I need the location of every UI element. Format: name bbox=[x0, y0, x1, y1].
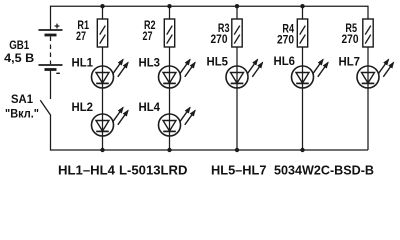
junction dot bottom 4 bbox=[300, 148, 304, 152]
svg-text:L-5013LRD: L-5013LRD bbox=[119, 162, 188, 177]
battery GB1 bbox=[39, 30, 63, 70]
wire battery bottom lead bbox=[50, 71, 52, 100]
switch SA1 blade bbox=[40, 100, 50, 115]
svg-text:27: 27 bbox=[76, 29, 86, 43]
wire battery top lead bbox=[50, 6, 52, 30]
svg-text:HL1–HL4: HL1–HL4 bbox=[58, 162, 116, 177]
resistor R4 bbox=[297, 19, 307, 47]
svg-text:SA1: SA1 bbox=[11, 92, 33, 106]
junction dot bottom 3 bbox=[235, 148, 239, 152]
resistor R3 bbox=[232, 19, 242, 47]
wire switch bottom lead bbox=[50, 115, 52, 151]
svg-text:HL5: HL5 bbox=[207, 55, 229, 69]
resistor R1 bbox=[97, 19, 107, 47]
svg-text:HL4: HL4 bbox=[139, 100, 161, 114]
junction dot top 2 bbox=[167, 4, 171, 8]
svg-text:HL2: HL2 bbox=[72, 100, 94, 114]
svg-text:270: 270 bbox=[342, 32, 359, 46]
resistor R2 bbox=[164, 19, 174, 47]
svg-text:5034W2C-BSD-B: 5034W2C-BSD-B bbox=[274, 162, 374, 177]
wire branch 4 bbox=[302, 6, 304, 150]
LED HL3 bbox=[159, 59, 196, 88]
wire branch 3 bbox=[236, 6, 238, 150]
junction dot top 1 bbox=[100, 4, 104, 8]
wire branch 2 bbox=[169, 6, 171, 150]
svg-text:4,5 В: 4,5 В bbox=[4, 51, 34, 65]
resistor R5 bbox=[363, 19, 373, 47]
svg-text:270: 270 bbox=[211, 32, 228, 46]
LED HL1 bbox=[92, 59, 129, 88]
svg-text:HL3: HL3 bbox=[139, 56, 161, 70]
junction dot top 3 bbox=[235, 4, 239, 8]
LED HL4 bbox=[159, 107, 196, 136]
plus sign bbox=[55, 24, 60, 29]
LED HL7 bbox=[357, 59, 394, 88]
minus sign bbox=[56, 72, 60, 74]
svg-text:HL6: HL6 bbox=[274, 54, 296, 68]
svg-text:"Вкл.": "Вкл." bbox=[5, 107, 39, 121]
junction dot bottom 1 bbox=[100, 148, 104, 152]
svg-text:HL5–HL7: HL5–HL7 bbox=[211, 162, 267, 177]
svg-text:270: 270 bbox=[277, 33, 294, 47]
LED HL2 bbox=[92, 107, 129, 136]
wire branch 5 bbox=[367, 6, 369, 150]
wire top bus bbox=[51, 5, 369, 7]
wire bottom bus bbox=[51, 149, 369, 151]
svg-text:HL7: HL7 bbox=[339, 55, 361, 69]
LED HL5 bbox=[226, 59, 263, 88]
svg-text:HL1: HL1 bbox=[72, 56, 94, 70]
wire branch 1 bbox=[102, 6, 104, 150]
wire battery middle dashed bbox=[50, 37, 52, 65]
LED HL6 bbox=[292, 59, 329, 88]
junction dot top 4 bbox=[300, 4, 304, 8]
svg-text:GB1: GB1 bbox=[9, 38, 29, 52]
svg-text:27: 27 bbox=[143, 29, 153, 43]
junction dot bottom 2 bbox=[167, 148, 171, 152]
